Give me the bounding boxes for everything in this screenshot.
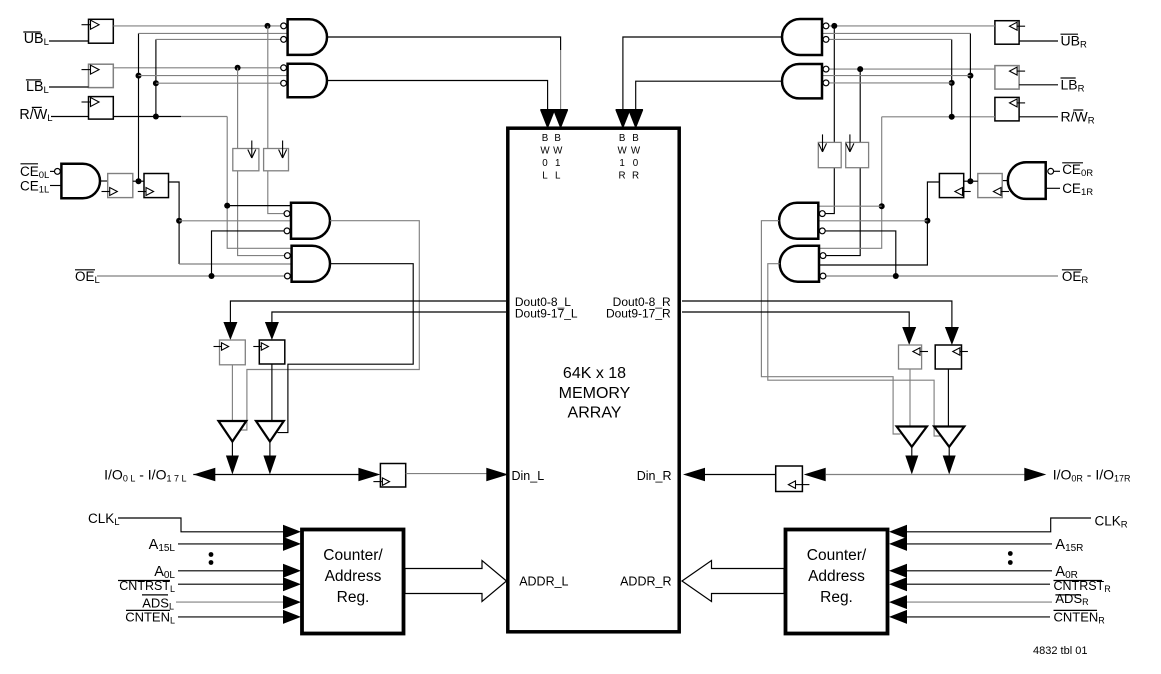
svg-text:1: 1 [619,158,624,169]
svg-text:Reg.: Reg. [337,589,370,606]
svg-text:Dout9-17_R: Dout9-17_R [606,307,671,321]
svg-text:Reg.: Reg. [820,589,853,606]
svg-text:R: R [619,170,626,181]
svg-text:Counter/: Counter/ [807,547,867,564]
svg-text:CNTRSTL: CNTRSTL [119,579,175,594]
svg-text:Din_L: Din_L [512,469,545,483]
svg-text:L: L [555,170,561,181]
svg-text:Din_R: Din_R [637,469,672,483]
svg-text:B: B [554,133,561,144]
svg-text:B: B [542,133,549,144]
svg-text:0: 0 [542,158,548,169]
svg-text:Address: Address [325,568,382,585]
svg-text:0: 0 [633,158,639,169]
svg-text:4832 tbl 01: 4832 tbl 01 [1033,645,1087,657]
svg-text:W: W [631,145,641,156]
svg-text:Counter/: Counter/ [323,547,383,564]
svg-text:1: 1 [555,158,560,169]
svg-text:B: B [619,133,626,144]
svg-text:W: W [553,145,563,156]
svg-text:Dout9-17_L: Dout9-17_L [515,307,578,321]
svg-text:ADDR_L: ADDR_L [519,575,568,589]
svg-text:R: R [632,170,639,181]
svg-text:ARRAY: ARRAY [568,405,622,422]
svg-text:CNTENR: CNTENR [1054,610,1106,626]
svg-text:Address: Address [808,568,865,585]
svg-text:B: B [632,133,639,144]
svg-text:L: L [542,170,548,181]
svg-text:ADDR_R: ADDR_R [620,575,671,589]
svg-text:W: W [540,145,550,156]
svg-text:CNTENL: CNTENL [125,610,175,626]
svg-text:64K x 18: 64K x 18 [563,365,626,382]
svg-text:W: W [617,145,627,156]
svg-text:MEMORY: MEMORY [559,385,631,402]
